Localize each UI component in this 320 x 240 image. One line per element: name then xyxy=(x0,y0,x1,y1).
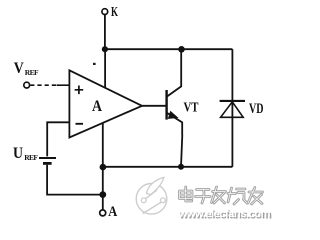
battery UREF plate short xyxy=(43,162,52,165)
diode VD cathode bar xyxy=(220,100,245,102)
wire bottom rail xyxy=(103,166,233,168)
svg-text:K: K xyxy=(111,5,118,20)
terminal K xyxy=(102,9,108,15)
label - input xyxy=(76,123,84,125)
terminal VREF xyxy=(24,82,30,88)
wire op-amp V- to node A branch xyxy=(102,123,104,210)
svg-text:A: A xyxy=(92,98,102,115)
watermark (drawn first, under circuit) xyxy=(136,177,272,221)
wire rail to diode VD xyxy=(231,49,233,101)
junction J5 (battery / node A) xyxy=(99,191,106,198)
transistor VT emitter arrow xyxy=(168,111,179,119)
svg-text:VT: VT xyxy=(184,101,200,116)
op-amp A xyxy=(69,70,142,137)
junction J1 (K / op-amp supply) xyxy=(102,46,108,52)
wire VREF dashed segment xyxy=(30,84,56,86)
junction J4 (emitter / bottom rail) xyxy=(178,164,184,170)
svg-text:U: U xyxy=(13,145,23,162)
wire top rail xyxy=(105,48,232,50)
wire op-amp output to VT base xyxy=(142,105,166,107)
wire diode VD to bottom rail xyxy=(231,101,233,167)
svg-text:www.elecfans.com: www.elecfans.com xyxy=(178,208,271,220)
transistor VT base bar xyxy=(165,90,167,120)
junction J3 (node branch / bottom rail) xyxy=(100,164,107,171)
wire K stem xyxy=(104,15,106,50)
diode VD triangle xyxy=(221,102,244,118)
wire op-amp V+ supply xyxy=(104,49,106,88)
junction J2 (collector / rail) xyxy=(178,46,185,53)
wire - input to battery xyxy=(47,122,69,156)
svg-text:VD: VD xyxy=(249,101,264,117)
stray ink mark xyxy=(93,63,96,65)
terminal A xyxy=(100,210,106,216)
wire emitter to bottom rail xyxy=(181,135,182,167)
transistor VT emitter xyxy=(167,113,182,135)
transistor VT collector xyxy=(167,49,181,96)
svg-text:V: V xyxy=(14,60,24,77)
svg-text:REF: REF xyxy=(25,68,39,77)
battery UREF plate long xyxy=(39,157,56,159)
svg-text:A: A xyxy=(108,204,117,220)
wire battery to node A xyxy=(47,165,103,195)
label + input xyxy=(75,86,84,95)
svg-text:REF: REF xyxy=(24,153,38,162)
wire VREF to + input xyxy=(57,84,70,86)
